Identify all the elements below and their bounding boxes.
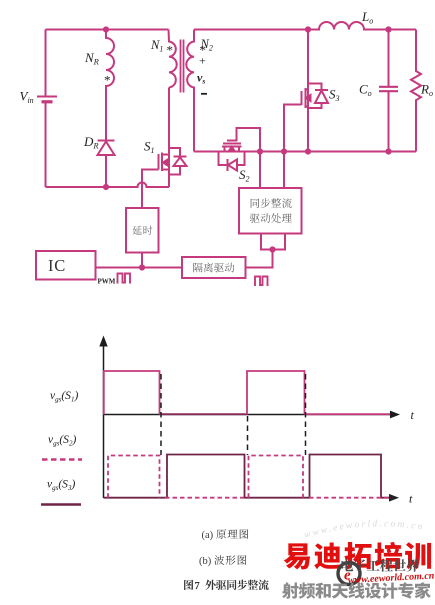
waveform t-axis plot 1 <box>104 408 415 422</box>
wire: isolation drive output <box>246 250 273 268</box>
svg-text:www.eeworld.com.cn: www.eeworld.com.cn <box>303 519 425 541</box>
waveform vertical axis <box>99 336 107 499</box>
isolation drive block (ge-li-qu-dong) <box>182 257 246 278</box>
svg-text:Co: Co <box>359 82 372 99</box>
body diode of S1 <box>169 148 187 175</box>
svg-text:vgs(S3): vgs(S3) <box>47 479 75 493</box>
transformer T1 core <box>181 40 184 93</box>
node: Co bottom junction <box>385 148 391 154</box>
node: S2 gate wire junction on rail <box>257 148 263 154</box>
node: Co top junction <box>385 26 391 32</box>
body diode of S2 <box>219 152 245 172</box>
svg-text:NR: NR <box>84 50 100 67</box>
sync rectification drive block <box>239 188 302 234</box>
wire: S2 gate to drive box <box>259 152 261 189</box>
wire: left branch lower <box>45 103 47 187</box>
transistor S1 (primary switch MOSFET) <box>142 88 169 209</box>
body diode of S3 <box>308 84 328 109</box>
svg-text:vgs(S2): vgs(S2) <box>48 434 76 448</box>
battery Vin <box>37 97 57 102</box>
svg-text:N1: N1 <box>150 38 163 54</box>
label minus <box>201 93 207 95</box>
wire: IC PWM output <box>96 267 183 269</box>
transformer T1 secondary winding N2 <box>186 30 194 152</box>
node: S3 source on rail <box>305 148 311 154</box>
svg-text:(a): (a) <box>202 530 214 541</box>
svg-text:*: * <box>167 43 174 58</box>
svg-text:vgs(S1): vgs(S1) <box>50 390 78 404</box>
diode DR <box>98 141 115 156</box>
svg-text:+: + <box>199 54 206 68</box>
svg-text:IC: IC <box>48 256 66 275</box>
wire: junction to sync drive box <box>261 234 285 250</box>
delay block (yan-shi) <box>126 208 159 253</box>
svg-text:S3: S3 <box>329 87 340 104</box>
transistor S3 (freewheel sync MOSFET) <box>284 30 311 189</box>
svg-text:PWM: PWM <box>98 278 116 286</box>
PWM pulse symbol <box>117 274 132 283</box>
svg-text:t: t <box>411 408 415 422</box>
svg-text:DR: DR <box>83 134 99 151</box>
dashed alignment lines <box>161 374 306 455</box>
node: DR bottom junction <box>103 184 109 190</box>
svg-text:(b): (b) <box>199 556 212 567</box>
wire: primary top rail <box>46 29 169 31</box>
node: delay/PWM junction <box>139 264 145 270</box>
transistor S2 (sync rectifier MOSFET) <box>222 128 260 152</box>
wire: left input branch <box>45 30 47 97</box>
node: NR top junction <box>103 26 109 32</box>
wire: delay block to PWM line <box>141 253 143 268</box>
svg-text:Ro: Ro <box>420 82 433 99</box>
caption figure 7 <box>184 580 193 590</box>
wire: secondary top rail <box>194 29 308 31</box>
waveform vgs(S1) trace <box>104 371 390 415</box>
capacitor Co <box>379 30 398 152</box>
svg-text:S1: S1 <box>144 139 155 156</box>
wire: DR to bottom rail <box>105 155 107 187</box>
waveform vgs(S3) trace <box>104 455 393 498</box>
watermark eeworld cn <box>341 559 353 571</box>
svg-text:S2: S2 <box>239 167 250 184</box>
wire: primary bottom rail with hop over gate wire <box>46 183 170 188</box>
inductor Lo <box>308 22 416 29</box>
watermark big red <box>284 543 310 569</box>
watermark logo <box>338 563 360 585</box>
drive pulse symbol <box>254 277 269 286</box>
watermark gray slogan <box>282 582 298 598</box>
legend dashed S2 <box>42 458 82 460</box>
transformer T1 primary winding N1 <box>169 30 177 88</box>
legend solid S3 <box>41 503 81 506</box>
IC block <box>36 251 96 280</box>
waveform vgs(S2) trace dashed <box>108 456 393 498</box>
inductor NR (reset winding) <box>106 30 114 141</box>
node: S3 gate wire junction on rail <box>281 148 287 154</box>
node: drive output junction <box>269 246 275 252</box>
svg-text:Lo: Lo <box>361 9 373 26</box>
node: S3 drain / Lo input <box>305 26 311 32</box>
svg-text:t: t <box>409 492 413 506</box>
resistor Ro <box>411 30 421 152</box>
svg-text:Vin: Vin <box>20 89 34 106</box>
waveform t-axis plot 2 arrow <box>389 492 413 506</box>
svg-text:vs: vs <box>197 71 205 86</box>
wire: secondary bottom rail <box>194 151 416 153</box>
svg-text:*: * <box>104 73 111 88</box>
svg-text:7: 7 <box>195 581 200 592</box>
